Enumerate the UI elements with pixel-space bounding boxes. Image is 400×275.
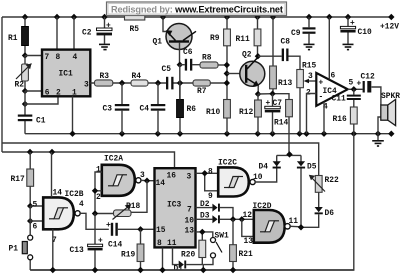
svg-text:8: 8 bbox=[56, 53, 61, 62]
wire +12V branch y=143 to R22 bbox=[2, 143, 319, 176]
svg-text:R3: R3 bbox=[100, 72, 110, 81]
wire IC2C output to D4 bbox=[255, 169, 277, 183]
junction dot Q2 collector / R11 / C8 bbox=[255, 53, 261, 59]
svg-text:C14: C14 bbox=[108, 241, 122, 250]
svg-text:R10: R10 bbox=[206, 108, 220, 117]
capacitor C10 (electrolytic) bbox=[340, 17, 372, 44]
svg-text:D6: D6 bbox=[325, 209, 335, 218]
diode D2 bbox=[196, 200, 234, 219]
wire IC4 pin6 riser bbox=[328, 17, 330, 80]
wire to IC1 pin 2 bbox=[25, 91, 58, 104]
resistor R6 bbox=[177, 83, 197, 134]
junction dot IC2B out / R18 / C13 bbox=[92, 210, 98, 216]
resistor R10 bbox=[206, 100, 230, 134]
wire ground bus to bottom bus connector bbox=[30, 134, 354, 270]
junction dot IC2D pin13 branch bbox=[239, 216, 245, 222]
svg-text:D1: D1 bbox=[174, 264, 184, 273]
junction dot C3 tap bbox=[119, 80, 125, 86]
wire +12V rail bbox=[2, 16, 391, 18]
junction dot pin2 branch bbox=[22, 101, 28, 107]
svg-text:5: 5 bbox=[349, 79, 354, 88]
junction dot R14 / D4 / D5 bbox=[286, 151, 292, 157]
svg-text:IC3: IC3 bbox=[167, 200, 181, 209]
svg-text:R13: R13 bbox=[278, 79, 292, 88]
speaker SPKR bbox=[372, 87, 400, 134]
junction dot IC2C input tie bbox=[202, 170, 208, 176]
wire Q1 base column to R6 bbox=[179, 65, 181, 100]
svg-text:R4: R4 bbox=[132, 72, 142, 81]
wire IC4 pin2 to ground bus bbox=[307, 94, 317, 134]
op-amp IC4 bbox=[306, 72, 354, 112]
svg-text:5: 5 bbox=[33, 201, 38, 210]
svg-text:C13: C13 bbox=[70, 246, 84, 255]
capacitor C1 bbox=[18, 104, 46, 134]
svg-text:D3: D3 bbox=[200, 212, 210, 221]
resistor R14 bbox=[274, 100, 292, 155]
svg-text:R2: R2 bbox=[15, 81, 25, 90]
svg-text:4: 4 bbox=[73, 53, 78, 62]
svg-text:SPKR: SPKR bbox=[381, 92, 400, 101]
banner box bbox=[107, 2, 287, 16]
svg-text:C7: C7 bbox=[273, 99, 283, 108]
pushbutton P1 bbox=[9, 235, 33, 260]
svg-text:12: 12 bbox=[243, 211, 253, 220]
junction dot IC2A out / R18 riser bbox=[144, 178, 150, 184]
svg-text:8: 8 bbox=[157, 239, 162, 248]
resistor R13 bbox=[270, 17, 293, 94]
svg-text:IC1: IC1 bbox=[59, 70, 73, 79]
switch SW1 bbox=[203, 232, 229, 265]
resistor R9 bbox=[210, 17, 230, 100]
wire IC4 output pin5 bbox=[348, 88, 363, 90]
junction dot R13 bottom / C7 bbox=[269, 91, 275, 97]
op-amp/timer IC1 bbox=[42, 50, 90, 98]
svg-text:R20: R20 bbox=[181, 251, 195, 260]
junction dot IC2D out / D5 / D6 bbox=[298, 224, 304, 230]
svg-text:6: 6 bbox=[45, 89, 50, 98]
trimmer R18 bbox=[95, 181, 147, 220]
wire IC1 pin3 output line y=83 bbox=[90, 82, 226, 84]
transistor Q2 bbox=[240, 51, 265, 95]
diode D3 bbox=[196, 212, 254, 224]
svg-text:1: 1 bbox=[72, 89, 77, 98]
svg-text:D2: D2 bbox=[200, 200, 210, 209]
wire IC2D pin13 bbox=[242, 219, 254, 236]
trimmer R2 bbox=[15, 56, 32, 92]
svg-text:14: 14 bbox=[156, 179, 166, 188]
trimmer R22 bbox=[309, 175, 339, 208]
junction dot IC2A pin2 bbox=[92, 188, 98, 194]
wire IC3 pin8 to bottom bus bbox=[162, 247, 164, 270]
ground symbol under C10 bbox=[343, 44, 354, 49]
wire bottom bus bbox=[30, 269, 354, 271]
svg-text:Q2: Q2 bbox=[242, 51, 252, 60]
NAND gate IC2D bbox=[243, 202, 299, 246]
junction dot R7 tap bbox=[224, 80, 230, 86]
capacitor C14 (electrolytic) bbox=[106, 221, 155, 250]
svg-text:SW1: SW1 bbox=[215, 232, 229, 241]
wire IC3 pin13 to SW1 and R20 bbox=[196, 232, 213, 240]
junction dot R1/R2/IC1 pin7 bbox=[22, 52, 28, 58]
svg-text:6: 6 bbox=[33, 223, 38, 232]
potentiometer R15 bbox=[297, 62, 317, 134]
capacitor C3 bbox=[103, 83, 130, 134]
svg-text:13: 13 bbox=[244, 237, 254, 246]
svg-text:IC2B: IC2B bbox=[65, 190, 84, 199]
svg-text:7: 7 bbox=[187, 206, 192, 215]
NAND gate IC2A bbox=[96, 155, 145, 203]
svg-text:R19: R19 bbox=[121, 251, 135, 260]
wire left frame from +12V down bbox=[1, 17, 3, 152]
wire IC2B output to C14 line bbox=[80, 213, 109, 229]
svg-text:11: 11 bbox=[167, 239, 177, 248]
svg-text:2: 2 bbox=[56, 89, 61, 98]
svg-text:C9: C9 bbox=[291, 29, 301, 38]
svg-text:1: 1 bbox=[96, 166, 101, 175]
svg-text:+: + bbox=[106, 221, 111, 230]
junction dot IC2B pin5 bbox=[27, 203, 33, 209]
wire IC2A output to IC3 pin14 bbox=[141, 179, 155, 181]
junction dot R20 tap bbox=[199, 229, 205, 235]
wire IC2B pin14 riser bbox=[51, 152, 53, 197]
svg-text:Q1: Q1 bbox=[153, 38, 163, 47]
svg-text:+12V: +12V bbox=[380, 23, 399, 32]
capacitor C9 bbox=[291, 17, 316, 44]
svg-text:R21: R21 bbox=[239, 250, 253, 259]
svg-text:C5: C5 bbox=[162, 65, 172, 74]
svg-text:R15: R15 bbox=[302, 62, 316, 71]
svg-text:R5: R5 bbox=[130, 25, 140, 34]
wire IC3 pin3 to IC2C inputs bbox=[196, 173, 219, 191]
svg-text:3: 3 bbox=[140, 171, 145, 180]
svg-text:R9: R9 bbox=[210, 34, 220, 43]
resistor R1 bbox=[8, 17, 28, 56]
capacitor C2 (electrolytic) bbox=[82, 17, 112, 44]
resistor R5 (in rail) bbox=[125, 15, 145, 34]
svg-text:IC2A: IC2A bbox=[104, 155, 123, 164]
svg-text:7: 7 bbox=[45, 53, 50, 62]
svg-text:11: 11 bbox=[289, 217, 299, 226]
junction dot IC2B pin14 riser bbox=[49, 149, 55, 155]
junction dots on ground bus bbox=[69, 131, 394, 137]
resistor R19 bbox=[121, 229, 144, 270]
wire IC3 pin11 to D1 bbox=[173, 247, 179, 264]
diode D6 bbox=[301, 207, 334, 227]
svg-text:+: + bbox=[350, 19, 355, 28]
svg-text:10: 10 bbox=[253, 173, 263, 182]
svg-text:R6: R6 bbox=[187, 105, 197, 114]
svg-text:14: 14 bbox=[53, 189, 63, 198]
junction dot Q2 base tap bbox=[224, 70, 230, 76]
junction dot IC4 out / C11 / C12 bbox=[351, 86, 357, 92]
svg-text:10: 10 bbox=[185, 217, 195, 226]
wire Q2 base bbox=[227, 73, 240, 75]
resistor R16 bbox=[333, 107, 358, 134]
junction dot R2 bottom / pin6 bbox=[22, 88, 28, 94]
svg-text:3: 3 bbox=[84, 80, 89, 89]
wire IC2D output bbox=[290, 225, 301, 228]
svg-text:+: + bbox=[98, 237, 103, 246]
svg-text:R7: R7 bbox=[197, 87, 207, 96]
wire IC1 pin1 to ground bus bbox=[72, 96, 74, 133]
svg-text:C10: C10 bbox=[358, 28, 372, 37]
IC3 box bbox=[155, 168, 196, 248]
junction dot R6/Q1 base column bbox=[177, 80, 183, 86]
wire IC4 pin4 to ground bus bbox=[323, 102, 325, 134]
svg-text:6: 6 bbox=[331, 72, 336, 81]
svg-text:2: 2 bbox=[96, 193, 101, 202]
svg-text:C12: C12 bbox=[361, 73, 375, 82]
wire to IC1 pin 6 bbox=[25, 90, 42, 92]
capacitor C5 bbox=[162, 65, 174, 89]
capacitor C7 (electrolytic) bbox=[265, 94, 282, 134]
junction dot R19 tap bbox=[137, 226, 143, 232]
capacitor C11 bbox=[332, 89, 361, 107]
diode D4 bbox=[259, 155, 281, 171]
junction dots on +12V rail bbox=[22, 14, 395, 20]
capacitor C8 bbox=[258, 38, 300, 70]
svg-text:R11: R11 bbox=[236, 35, 250, 44]
resistor R20 bbox=[181, 240, 206, 264]
svg-text:4: 4 bbox=[79, 200, 84, 209]
resistor R3 bbox=[95, 72, 113, 86]
resistor R21 bbox=[230, 219, 253, 270]
NAND gate IC2C bbox=[208, 159, 263, 202]
svg-text:IC2C: IC2C bbox=[218, 159, 237, 168]
junction dot D2 / R21 bbox=[230, 216, 236, 222]
wire +12V branch y=152 to IC3 pin16 bbox=[2, 152, 175, 168]
svg-text:8: 8 bbox=[208, 168, 213, 177]
svg-text:R17: R17 bbox=[11, 175, 25, 184]
svg-text:IC2D: IC2D bbox=[253, 202, 272, 211]
ground symbol under C2 bbox=[99, 44, 110, 49]
junction dot Q2 emitter / R12 bbox=[255, 91, 261, 97]
svg-text:+: + bbox=[106, 22, 111, 31]
svg-text:C2: C2 bbox=[82, 29, 92, 38]
svg-text:R8: R8 bbox=[202, 54, 212, 63]
junction dot C4 tap bbox=[155, 80, 161, 86]
svg-text:R22: R22 bbox=[325, 176, 339, 185]
svg-text:C8: C8 bbox=[281, 38, 291, 47]
wire Q2 emitter node bbox=[258, 94, 289, 100]
svg-text:Redisgned by: www.ExtremeCircu: Redisgned by: www.ExtremeCircuits.net bbox=[111, 4, 283, 14]
wire IC2B inputs column bbox=[30, 206, 43, 270]
svg-text:P1: P1 bbox=[9, 245, 19, 254]
ground symbol right (under bus) bbox=[372, 134, 384, 146]
resistor R7 bbox=[193, 80, 210, 96]
transistor Q1 bbox=[153, 17, 197, 65]
resistor R12 bbox=[239, 94, 261, 134]
junction dot R17 top bbox=[27, 149, 33, 155]
wire D4/D5 top junction bbox=[277, 154, 301, 162]
ground symbol under C9 bbox=[304, 44, 315, 49]
svg-text:R16: R16 bbox=[333, 115, 347, 124]
junction dots bottom bus bbox=[50, 267, 237, 273]
resistor R4 bbox=[131, 72, 148, 86]
svg-text:3: 3 bbox=[308, 72, 313, 81]
svg-text:R1: R1 bbox=[8, 34, 18, 43]
svg-text:D5: D5 bbox=[307, 163, 317, 172]
svg-text:16: 16 bbox=[167, 172, 177, 181]
resistor R8 bbox=[200, 54, 226, 69]
junction dot R8/R9 column bbox=[224, 62, 230, 68]
NAND gate IC2B bbox=[33, 189, 85, 246]
IC1 risers pins 8 and 4 bbox=[57, 17, 74, 50]
svg-text:13: 13 bbox=[185, 226, 195, 235]
capacitor C4 bbox=[140, 83, 166, 134]
svg-text:+: + bbox=[266, 99, 271, 108]
resistor R11 bbox=[236, 17, 261, 56]
svg-text:C3: C3 bbox=[103, 105, 113, 114]
svg-text:R12: R12 bbox=[239, 108, 253, 117]
junction dot Q1 base / C6 bbox=[177, 62, 183, 68]
resistor R17 bbox=[11, 152, 34, 206]
capacitor C13 (electrolytic) bbox=[70, 214, 104, 271]
wire ground bus (0V) y=133.7 bbox=[25, 133, 391, 135]
wire IC2A inputs tie bbox=[95, 172, 102, 214]
svg-text:C11: C11 bbox=[332, 95, 346, 104]
svg-text:3: 3 bbox=[187, 173, 192, 182]
capacitor C6 bbox=[180, 48, 200, 71]
svg-text:C1: C1 bbox=[36, 117, 46, 126]
capacitor C12 (electrolytic) bbox=[357, 73, 375, 93]
diode D5 bbox=[297, 161, 317, 227]
wire to IC1 pin 7 bbox=[25, 55, 42, 57]
svg-text:C4: C4 bbox=[140, 105, 150, 114]
svg-text:C6: C6 bbox=[183, 48, 193, 57]
svg-text:D4: D4 bbox=[259, 163, 269, 172]
diode D1 bbox=[174, 261, 204, 274]
svg-text:15: 15 bbox=[156, 226, 166, 235]
svg-text:R18: R18 bbox=[126, 202, 140, 211]
svg-text:R14: R14 bbox=[274, 119, 288, 128]
wire IC2B pin7 to bottom bus bbox=[52, 229, 54, 270]
junction dot IC2B pin6 bbox=[27, 218, 33, 224]
